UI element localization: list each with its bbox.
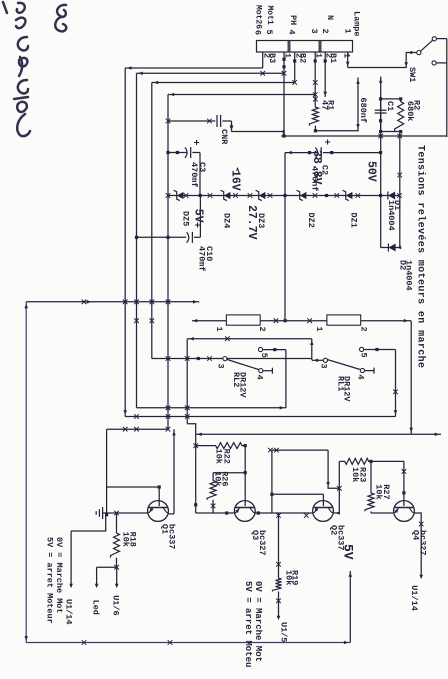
handwriting top-left: [3, 2, 66, 136]
wire mid jog: [187, 424, 195, 435]
wire Led: [96, 567, 98, 587]
wire Q4 base: [403, 461, 405, 506]
wire coil rail top link: [410, 321, 412, 434]
wire rail R2 right: [399, 132, 401, 248]
wire bus pin4 vertical: [152, 82, 295, 84]
resistor R2: [395, 99, 404, 131]
wire CNR stub: [231, 121, 233, 132]
wire SW line: [284, 135, 447, 137]
resistor R18: [116, 513, 118, 531]
wire pin 1 Lampe: [347, 52, 349, 68]
wire U1/5: [278, 592, 280, 619]
wire R22 bottom: [196, 445, 213, 447]
transistor Q1 bc337: [148, 501, 169, 522]
wire R26 to rail: [212, 500, 214, 513]
resistor R26: [207, 479, 216, 500]
wire chain to C10: [199, 196, 201, 238]
wire Q1 emitter: [107, 512, 148, 514]
transistor Q3 bc327: [234, 501, 255, 522]
wire pin 3: [314, 52, 316, 105]
wire bus pin3 horizontal: [167, 95, 169, 430]
wire right rail: [26, 642, 350, 644]
wire RL2-5 link: [285, 350, 287, 408]
ground: [103, 512, 107, 514]
wire RL2 riser: [137, 407, 286, 409]
wire Q2 base riser: [272, 493, 324, 495]
wire 0V rail: [195, 434, 197, 513]
wire C2 to chain to coils: [284, 153, 286, 321]
capacitor C1: [380, 99, 382, 110]
wire pin4 top link: [311, 339, 313, 360]
wire mid cross: [186, 339, 188, 424]
wire bus pin5 vertical: [137, 72, 285, 74]
diode D1 1n4004: [381, 195, 400, 197]
wire Led U1/6 bracket: [97, 566, 117, 568]
wire Q3 base: [244, 446, 246, 506]
wire R23 R27 link: [370, 461, 372, 491]
capacitor C10: [194, 236, 200, 238]
relay RL1 contact 4: [360, 368, 364, 372]
wire 50V rail: [380, 77, 382, 248]
wire mid drop: [187, 338, 312, 340]
wire pin 5 Mot1: [283, 52, 285, 136]
varistor CNR: [222, 120, 231, 122]
wire Q4 collector: [414, 513, 421, 578]
wire U1/14 left branch: [71, 515, 106, 531]
relay coil RL1: [327, 315, 361, 325]
zener DZ4: [224, 192, 231, 199]
relay RL2 contact 3: [223, 357, 227, 361]
wire pin 6 Mot26: [262, 52, 264, 68]
wire W_B top: [196, 433, 441, 435]
resistor R1: [309, 105, 318, 125]
wire bus pin5 horizontal: [136, 73, 138, 408]
wire Q2 collector: [338, 462, 340, 514]
transistor Q4 bc327: [394, 501, 415, 522]
zener DZ2: [300, 192, 307, 199]
wire top edge: [446, 39, 448, 137]
relay RL1 contact 3: [323, 358, 327, 362]
wire left vertical: [26, 301, 199, 303]
wire coupling vertical: [272, 449, 328, 451]
wire R26 branch: [213, 472, 245, 474]
wire R23 top stub: [371, 460, 404, 462]
wire pin4 riser: [152, 358, 223, 360]
resistor R23: [342, 458, 371, 464]
diode D2 1n4004: [381, 247, 400, 249]
wire pin 4 PH: [294, 52, 296, 83]
wire coupling top: [328, 450, 339, 488]
zener DZ5: [177, 192, 184, 199]
relay RL2 lever: [227, 359, 259, 369]
wire R2C1 right bar: [381, 131, 401, 133]
wire U1/6: [116, 567, 118, 587]
wire R19 row: [278, 513, 280, 577]
wire R2C1 left bar: [381, 98, 401, 100]
wire RL1-5 link: [395, 350, 397, 417]
wire bottom border: [25, 302, 27, 643]
transistor Q2 bc337: [313, 501, 334, 522]
resistor R19: [273, 577, 282, 591]
resistor R27: [365, 491, 374, 511]
relay coil RL2: [226, 315, 260, 325]
wire R23 bottom: [339, 460, 342, 462]
wire bus pin4 horizontal: [151, 83, 153, 359]
capacitor C2: [323, 152, 381, 154]
zener DZ3: [259, 192, 266, 199]
wire bus pin6 vertical: [125, 67, 263, 69]
wire Q1 base drop: [107, 486, 160, 488]
wire chain to C3: [199, 153, 201, 196]
zener DZ1: [346, 192, 353, 199]
relay RL1 contact 5: [360, 347, 364, 351]
wire bus pin6 horizontal: [124, 68, 126, 417]
relay RL2 contact 5: [258, 347, 262, 351]
wire W_A ground link: [107, 428, 168, 430]
wire Q1 base: [158, 487, 160, 506]
capacitor C3: [192, 152, 200, 154]
wire rail A: [232, 131, 285, 133]
wire zener chain: [168, 195, 381, 197]
relay RL1 lever: [327, 360, 360, 370]
wire pin1 to R1 link: [315, 78, 358, 131]
connector J1 body: [257, 41, 353, 53]
resistor R22: [213, 443, 244, 449]
wire SW1 contact stubs: [437, 38, 447, 40]
wire Q3 rail: [196, 512, 235, 514]
relay RL2 contact 4: [259, 369, 263, 373]
wire coupling bottom: [271, 450, 273, 513]
wire Q1 collector feed: [173, 429, 175, 514]
wire Q2 base: [322, 494, 324, 506]
switch SW1: [432, 37, 436, 41]
wire SW1 pivot to pin 1: [348, 53, 417, 68]
wire bus pin3 vertical: [168, 94, 315, 96]
wire Q4 emitter: [370, 511, 372, 513]
wire coil rail: [361, 320, 411, 322]
wire RL1 riser: [125, 416, 395, 418]
wire pin 2 N: [324, 52, 326, 97]
wire 5V feed: [349, 571, 351, 643]
